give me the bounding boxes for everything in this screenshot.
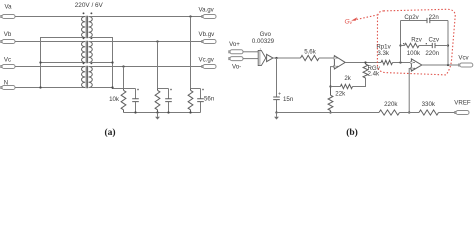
wire 5.6k to opamp1: [319, 57, 334, 59]
node R3-bus: [189, 111, 191, 113]
resistor 10k R3: [188, 89, 193, 113]
svg-text:(b): (b): [346, 127, 358, 138]
summer input tick: [260, 48, 261, 50]
svg-text:Vo-: Vo-: [232, 64, 241, 71]
wire ground bus: [124, 112, 201, 114]
node 22k-ground bus: [329, 111, 331, 113]
capacitor Czv 220n: [419, 43, 448, 48]
wire Vo+ to summer: [243, 51, 258, 53]
svg-text:Vcv: Vcv: [458, 54, 469, 61]
wire R1 top to C1 top: [124, 88, 136, 90]
C1 pin mark: [137, 89, 138, 90]
wire opamp2 plus input down: [409, 69, 411, 113]
wire Vb.gv tap down to R2: [157, 42, 159, 89]
svg-text:2.4k: 2.4k: [368, 71, 381, 78]
wire to Rzv: [401, 45, 405, 47]
svg-text:10k: 10k: [109, 96, 120, 103]
summer block (Vo+ - Vo-): [258, 50, 266, 65]
resistor 220k: [379, 110, 400, 115]
capacitor 15n: [273, 58, 280, 113]
resistor 22k: [328, 87, 333, 113]
transformer TR1 220V/6V: [82, 12, 93, 38]
wire neutral bus lower: [40, 63, 42, 88]
wire N to T3 primary bottom: [15, 87, 85, 89]
resistor 10k R1: [121, 89, 126, 113]
node opamp2 minus: [399, 61, 401, 63]
red dashed box Gv compensation network: [377, 9, 455, 75]
wire T3 secondary top to Vc.gv: [89, 66, 203, 68]
wire Vc.gv tap down to R1: [123, 67, 125, 89]
wire Vc to T3 primary top: [15, 66, 85, 68]
svg-text:220V / 6V: 220V / 6V: [75, 2, 104, 9]
resistor 10k R2: [155, 89, 160, 113]
svg-text:Va.gv: Va.gv: [199, 6, 215, 13]
wire Vb to T2 primary top: [15, 41, 85, 43]
op-amp U1: [333, 56, 345, 69]
svg-text:Rzv: Rzv: [411, 36, 423, 43]
C2 pin mark: [170, 89, 171, 90]
port Vc: [1, 65, 15, 69]
node tap Va.gv: [189, 15, 191, 17]
node 15n ground: [275, 111, 277, 113]
resistor RGv 2.4k: [363, 63, 368, 79]
wire opamp1 plus input down: [331, 67, 335, 87]
node feedback tap: [447, 64, 449, 66]
wire opamp1 out: [345, 62, 381, 64]
wire T2 secondary bottom: [89, 62, 113, 64]
node C1-bus: [134, 111, 136, 113]
svg-text:Vc.gv: Vc.gv: [199, 56, 215, 63]
wire 2k to RGv bottom: [353, 78, 366, 87]
node RGv tap: [364, 61, 366, 63]
svg-text:Vb: Vb: [4, 31, 12, 38]
resistor 330k: [419, 110, 439, 115]
resistor Rzv 100k: [405, 43, 420, 47]
wire Va.gv tap down to R3: [190, 17, 192, 89]
red dashed arrow to Gv label: [355, 15, 378, 20]
port Va: [1, 15, 15, 19]
port VREF: [455, 111, 469, 115]
svg-text:Vc: Vc: [4, 56, 11, 63]
port Vo+: [229, 50, 243, 54]
svg-text:Va: Va: [4, 4, 12, 11]
wire opamp2 out: [422, 64, 459, 66]
node Rzv left: [399, 44, 401, 46]
transformer TR2 220V/6V: [82, 37, 93, 63]
svg-text:330k: 330k: [422, 101, 436, 108]
node VREF divider: [408, 111, 410, 113]
port Vc.gv: [202, 65, 216, 69]
svg-text:Czv: Czv: [429, 36, 441, 43]
svg-text:5.6k: 5.6k: [304, 48, 317, 55]
svg-text:Vb.gv: Vb.gv: [199, 31, 216, 38]
wire 220k to 330k: [400, 112, 420, 114]
svg-text:(a): (a): [104, 127, 115, 138]
node secondary common T2: [111, 61, 113, 63]
ground section b: [274, 113, 279, 120]
node opamp1 fb: [329, 85, 331, 87]
transformer TR3 220V/6V: [82, 62, 93, 88]
resistor 2k: [340, 84, 352, 88]
resistor 5.6k: [301, 55, 320, 60]
wire T2 secondary top to Vb.gv: [89, 41, 203, 43]
svg-text:Gv: Gv: [345, 18, 353, 25]
wire R2 top to C2 top: [158, 88, 169, 90]
Czv pin mark: [426, 43, 427, 44]
node neutral-T2 junction: [39, 61, 41, 63]
svg-text:Vo+: Vo+: [229, 41, 240, 48]
ground section a: [155, 113, 160, 120]
wire Vo- to summer: [243, 58, 258, 60]
node Czv right: [447, 44, 449, 46]
capacitor 56n C3: [197, 89, 204, 113]
svg-text:220k: 220k: [384, 101, 398, 108]
node Gvo output: [275, 57, 277, 59]
svg-text:15n: 15n: [283, 96, 294, 103]
node tap Vc.gv: [122, 65, 124, 67]
Rzv pin mark: [403, 43, 404, 44]
wire T2 primary bottom to neutral bus: [41, 62, 86, 64]
wire 330k to VREF: [439, 112, 457, 114]
wire Gvo output: [273, 57, 301, 59]
svg-text:Gvo: Gvo: [260, 31, 272, 38]
node secondary common T3: [111, 86, 113, 88]
port Vb: [1, 40, 15, 44]
gain block Gvo 0.00329: [267, 54, 273, 61]
svg-text:3.3k: 3.3k: [377, 50, 390, 57]
C3 pin mark: [202, 89, 203, 90]
node C2-bus: [167, 111, 169, 113]
svg-text:0.00329: 0.00329: [252, 38, 275, 45]
svg-text:220n: 220n: [425, 50, 439, 57]
wire T1 primary bottom to neutral bus: [41, 38, 86, 63]
15n pin mark: [278, 92, 280, 94]
wire Va to T1 primary top: [15, 16, 85, 18]
svg-text:VREF: VREF: [454, 99, 471, 106]
port Vb.gv: [202, 40, 216, 44]
wire Rp1v to opamp2: [393, 62, 412, 64]
port Vo-: [229, 57, 243, 61]
svg-text:2k: 2k: [344, 75, 351, 82]
wire bottom bus: [277, 112, 380, 114]
resistor Rp1v 3.3k: [381, 60, 393, 64]
port N: [1, 86, 15, 90]
node neutral-N junction: [39, 86, 41, 88]
wire feedback right vertical: [447, 21, 449, 66]
wire feedback left vertical: [400, 21, 402, 63]
svg-text:100k: 100k: [407, 50, 421, 57]
wire T3 secondary bottom: [89, 87, 113, 89]
wire node to 2k: [331, 86, 341, 88]
node R2-bus: [156, 111, 158, 113]
svg-text:56n: 56n: [204, 96, 215, 103]
port Vcv: [459, 63, 473, 67]
op-amp U2: [410, 59, 422, 71]
svg-text:22k: 22k: [335, 90, 346, 97]
capacitor Cp2v 22n: [401, 18, 449, 23]
capacitor 56n C2: [165, 89, 172, 113]
node tap Vb.gv: [156, 40, 158, 42]
wire T1 secondary bottom: [89, 38, 124, 89]
port Va.gv: [202, 15, 216, 19]
wire T1 secondary top to Va.gv: [89, 16, 203, 18]
capacitor 56n C1: [132, 89, 139, 113]
wire R3 top to C3 top: [191, 88, 201, 90]
